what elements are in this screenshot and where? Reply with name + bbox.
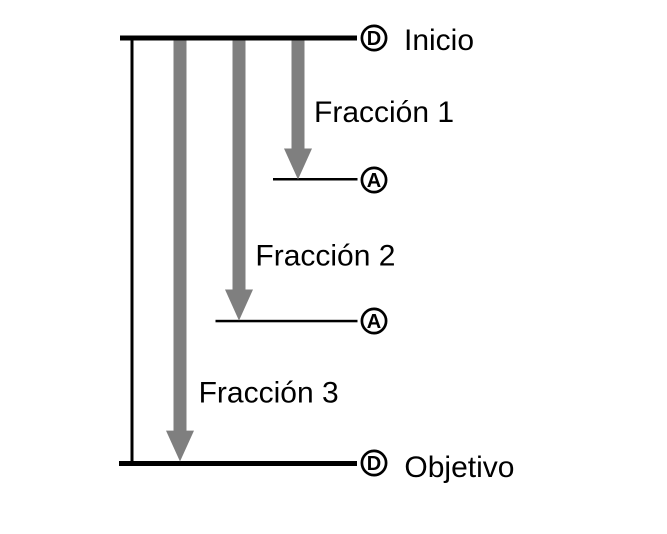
node D bottom xyxy=(362,451,386,475)
node D top xyxy=(362,26,386,50)
bottom horizontal line (Objetivo) xyxy=(119,461,357,466)
left vertical wire xyxy=(131,38,134,465)
arrow Fraccion 2 xyxy=(225,41,253,321)
svg-text:Inicio: Inicio xyxy=(404,24,474,57)
svg-text:D: D xyxy=(367,453,381,475)
svg-text:D: D xyxy=(367,28,381,50)
svg-text:Fracción 3: Fracción 3 xyxy=(199,377,339,410)
top horizontal line (Inicio) xyxy=(120,36,357,41)
svg-text:A: A xyxy=(367,170,381,192)
svg-text:A: A xyxy=(367,311,381,333)
svg-text:Fracción 1: Fracción 1 xyxy=(314,96,454,129)
arrow Fraccion 1 xyxy=(284,41,312,180)
node A2 xyxy=(362,309,386,333)
short line A2 xyxy=(216,320,358,323)
short line A1 xyxy=(273,178,358,181)
arrow Fraccion 3 xyxy=(166,41,194,462)
svg-text:Fracción 2: Fracción 2 xyxy=(255,240,395,273)
svg-text:Objetivo: Objetivo xyxy=(404,451,514,484)
node A1 xyxy=(362,168,386,192)
